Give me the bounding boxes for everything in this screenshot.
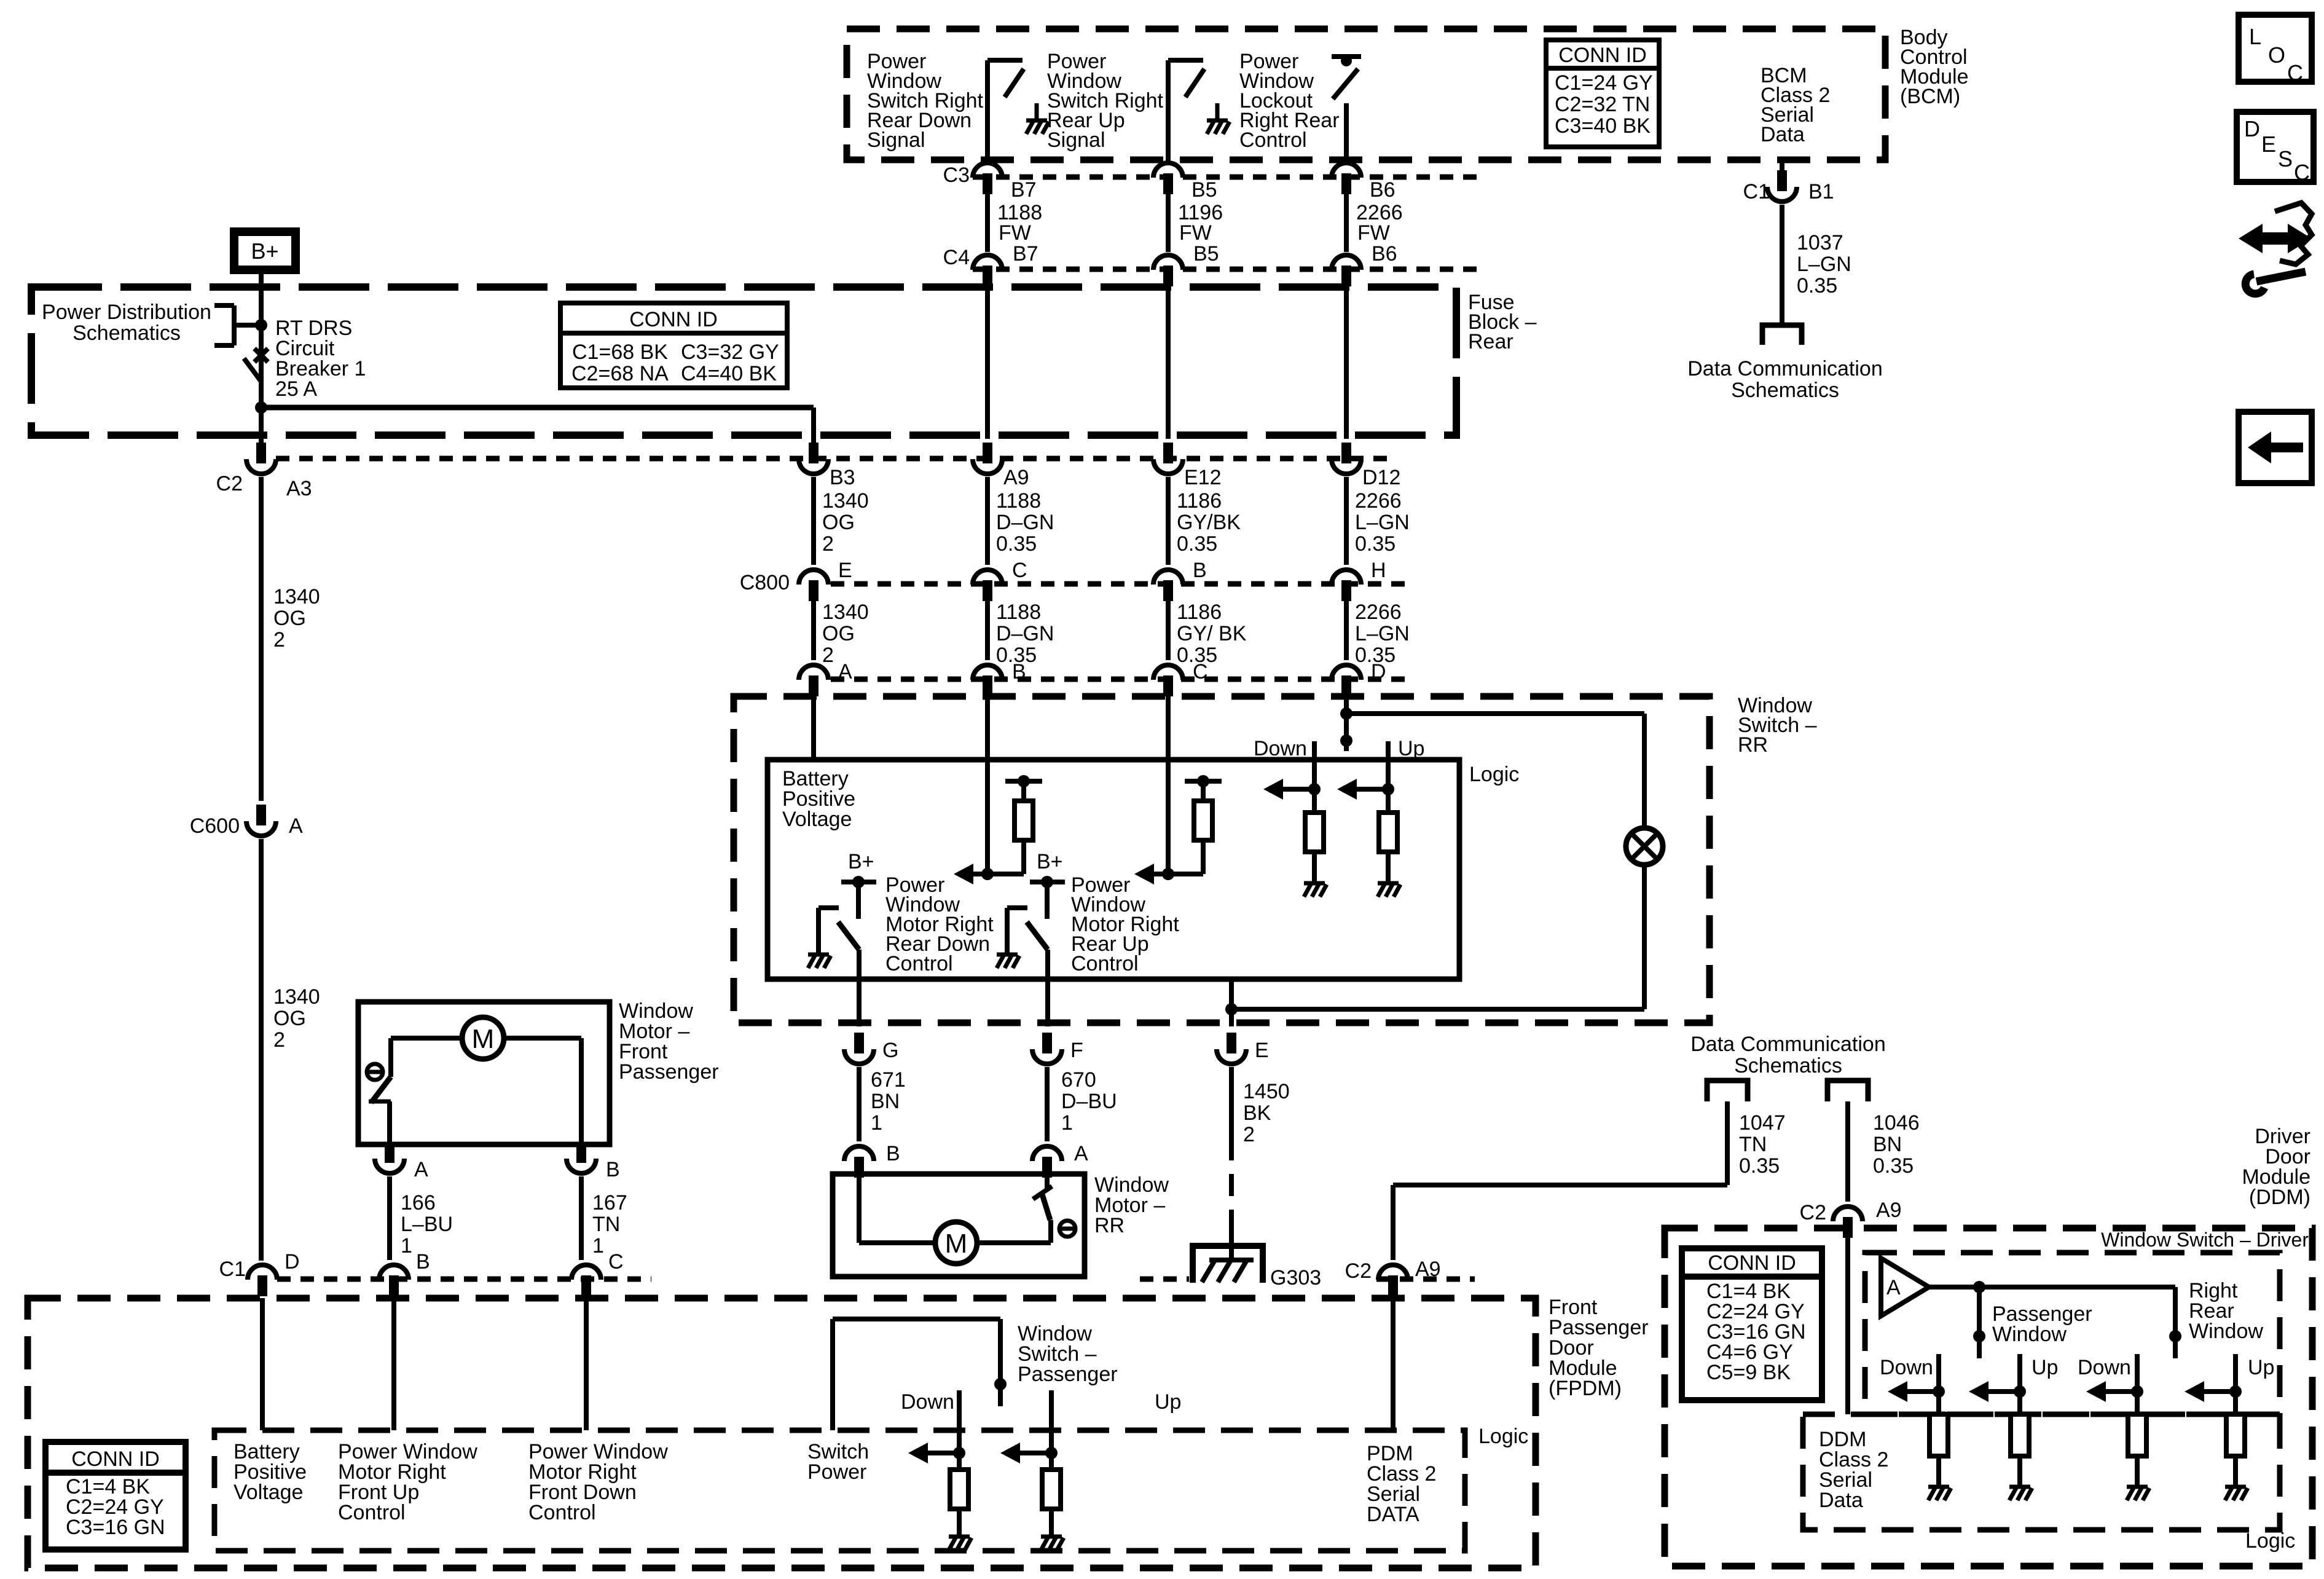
svg-text:C2=68 NA: C2=68 NA xyxy=(571,362,669,385)
svg-text:Window: Window xyxy=(2189,1320,2263,1343)
svg-text:G: G xyxy=(882,1039,898,1062)
svg-text:S: S xyxy=(2278,146,2293,171)
svg-text:Up: Up xyxy=(2248,1356,2274,1379)
svg-text:Schematics: Schematics xyxy=(73,321,181,345)
svg-text:B+: B+ xyxy=(1037,850,1063,873)
svg-text:Data: Data xyxy=(1819,1489,1863,1512)
svg-text:2266: 2266 xyxy=(1355,600,1402,624)
svg-text:D–BU: D–BU xyxy=(1061,1090,1117,1113)
svg-text:Data Communication: Data Communication xyxy=(1687,357,1882,380)
svg-text:A9: A9 xyxy=(1003,466,1029,489)
svg-text:1: 1 xyxy=(401,1234,412,1258)
svg-text:A3: A3 xyxy=(286,477,312,500)
svg-text:B1: B1 xyxy=(1808,180,1834,203)
svg-text:2: 2 xyxy=(1243,1123,1255,1146)
svg-text:E: E xyxy=(2261,132,2276,157)
svg-text:C: C xyxy=(1012,559,1027,582)
svg-text:D–GN: D–GN xyxy=(996,622,1054,645)
svg-text:1340: 1340 xyxy=(273,985,320,1009)
svg-text:A: A xyxy=(1074,1142,1088,1165)
svg-text:Control: Control xyxy=(528,1501,596,1524)
svg-text:C800: C800 xyxy=(740,571,790,594)
svg-text:Up: Up xyxy=(2032,1356,2058,1379)
svg-text:CONN ID: CONN ID xyxy=(71,1447,160,1471)
svg-text:D: D xyxy=(1371,660,1386,683)
svg-text:1450: 1450 xyxy=(1243,1080,1290,1103)
svg-text:FW: FW xyxy=(1357,221,1390,245)
svg-text:D12: D12 xyxy=(1362,466,1400,489)
svg-text:Data Communication: Data Communication xyxy=(1690,1033,1885,1056)
svg-text:L–GN: L–GN xyxy=(1355,511,1410,534)
svg-text:A9: A9 xyxy=(1876,1199,1902,1222)
svg-text:Passenger: Passenger xyxy=(619,1060,719,1084)
svg-text:OG: OG xyxy=(822,622,855,645)
svg-text:CONN ID: CONN ID xyxy=(1558,44,1647,67)
svg-text:Down: Down xyxy=(1880,1356,1933,1379)
svg-text:Down: Down xyxy=(1254,737,1307,760)
svg-text:E12: E12 xyxy=(1184,466,1222,489)
svg-text:C2: C2 xyxy=(1800,1201,1826,1224)
svg-text:Signal: Signal xyxy=(1047,128,1105,152)
svg-text:Power Distribution: Power Distribution xyxy=(42,301,211,324)
svg-text:1340: 1340 xyxy=(822,489,869,513)
svg-text:2: 2 xyxy=(273,628,285,652)
svg-text:(FPDM): (FPDM) xyxy=(1549,1377,1622,1400)
svg-text:L–GN: L–GN xyxy=(1797,253,1851,276)
svg-text:L–GN: L–GN xyxy=(1355,622,1410,645)
svg-text:D: D xyxy=(2244,116,2260,141)
svg-text:BK: BK xyxy=(1243,1101,1271,1125)
svg-text:C600: C600 xyxy=(190,814,240,838)
svg-text:1047: 1047 xyxy=(1739,1111,1786,1135)
svg-text:0.35: 0.35 xyxy=(1873,1154,1914,1178)
svg-text:B5: B5 xyxy=(1191,178,1217,202)
svg-text:Control: Control xyxy=(885,952,953,975)
svg-text:F: F xyxy=(1070,1039,1083,1062)
svg-text:0.35: 0.35 xyxy=(1355,532,1396,556)
svg-text:D–GN: D–GN xyxy=(996,511,1054,534)
svg-text:2: 2 xyxy=(822,532,834,556)
svg-text:TN: TN xyxy=(592,1213,620,1236)
svg-text:Down: Down xyxy=(901,1390,954,1414)
svg-text:B3: B3 xyxy=(830,466,855,489)
svg-text:C4=40 BK: C4=40 BK xyxy=(681,362,777,385)
svg-text:166: 166 xyxy=(401,1191,436,1215)
svg-text:670: 670 xyxy=(1061,1068,1096,1092)
svg-text:M: M xyxy=(472,1024,495,1054)
svg-text:C1=24 GY: C1=24 GY xyxy=(1555,71,1653,95)
svg-text:Control: Control xyxy=(1239,128,1307,152)
svg-text:FW: FW xyxy=(999,221,1031,245)
svg-text:Schematics: Schematics xyxy=(1734,1054,1842,1077)
svg-text:C3=32 GY: C3=32 GY xyxy=(681,341,779,364)
svg-text:Voltage: Voltage xyxy=(782,808,852,831)
svg-text:B7: B7 xyxy=(1011,178,1037,202)
svg-text:RR: RR xyxy=(1738,733,1768,757)
svg-text:BN: BN xyxy=(871,1090,900,1113)
svg-text:0.35: 0.35 xyxy=(1739,1154,1780,1178)
svg-text:GY/BK: GY/BK xyxy=(1177,511,1241,534)
svg-text:Down: Down xyxy=(2078,1356,2131,1379)
svg-text:L–BU: L–BU xyxy=(401,1213,453,1236)
svg-text:B6: B6 xyxy=(1372,242,1397,266)
svg-text:1: 1 xyxy=(871,1111,882,1135)
svg-text:L: L xyxy=(2249,24,2261,49)
svg-text:B+: B+ xyxy=(848,850,874,873)
svg-text:Power: Power xyxy=(807,1460,866,1484)
svg-text:1: 1 xyxy=(592,1234,604,1258)
svg-text:B5: B5 xyxy=(1193,242,1219,266)
svg-text:Logic: Logic xyxy=(1478,1425,1528,1448)
svg-text:A9: A9 xyxy=(1415,1258,1441,1281)
svg-text:B: B xyxy=(416,1250,430,1274)
svg-text:C: C xyxy=(2287,60,2303,85)
svg-text:C1: C1 xyxy=(1743,180,1770,203)
svg-text:O: O xyxy=(2268,42,2285,68)
svg-text:1188: 1188 xyxy=(996,489,1041,513)
svg-text:0.35: 0.35 xyxy=(1797,274,1837,297)
svg-text:167: 167 xyxy=(592,1191,627,1215)
svg-text:TN: TN xyxy=(1739,1133,1767,1156)
svg-text:C3=40 BK: C3=40 BK xyxy=(1555,114,1651,138)
svg-text:Window Switch – Driver: Window Switch – Driver xyxy=(2101,1229,2309,1251)
svg-text:OG: OG xyxy=(273,1007,306,1030)
svg-text:Voltage: Voltage xyxy=(234,1481,303,1504)
svg-text:OG: OG xyxy=(273,607,306,630)
svg-text:D: D xyxy=(285,1250,300,1274)
svg-text:Rear: Rear xyxy=(1468,330,1513,353)
svg-text:CONN ID: CONN ID xyxy=(629,308,718,331)
svg-text:Logic: Logic xyxy=(2245,1529,2295,1553)
svg-text:1188: 1188 xyxy=(996,600,1041,624)
svg-text:E: E xyxy=(1255,1039,1269,1062)
svg-text:Window: Window xyxy=(1992,1323,2067,1346)
svg-text:H: H xyxy=(1371,559,1386,582)
svg-text:0.35: 0.35 xyxy=(1177,532,1217,556)
svg-text:1340: 1340 xyxy=(822,600,869,624)
svg-text:Passenger: Passenger xyxy=(1018,1363,1118,1386)
svg-text:C4: C4 xyxy=(943,246,970,269)
svg-text:0.35: 0.35 xyxy=(996,532,1037,556)
svg-text:B: B xyxy=(1193,559,1207,582)
svg-text:Up: Up xyxy=(1155,1390,1181,1414)
svg-text:1046: 1046 xyxy=(1873,1111,1920,1135)
svg-text:C5=9 BK: C5=9 BK xyxy=(1706,1361,1791,1384)
svg-text:FW: FW xyxy=(1179,221,1212,245)
svg-text:1340: 1340 xyxy=(273,585,320,608)
svg-text:C: C xyxy=(2294,160,2310,185)
svg-text:Control: Control xyxy=(338,1501,406,1524)
svg-text:A: A xyxy=(1886,1276,1901,1299)
svg-text:B7: B7 xyxy=(1013,242,1038,266)
svg-text:C1=68 BK: C1=68 BK xyxy=(572,341,668,364)
svg-text:C1: C1 xyxy=(219,1258,246,1281)
svg-text:2266: 2266 xyxy=(1355,489,1402,513)
svg-text:Signal: Signal xyxy=(867,128,925,152)
svg-text:DATA: DATA xyxy=(1367,1503,1419,1526)
svg-text:(BCM): (BCM) xyxy=(1900,85,1960,108)
svg-text:GY/ BK: GY/ BK xyxy=(1177,622,1247,645)
svg-text:C: C xyxy=(608,1250,624,1274)
svg-text:1186: 1186 xyxy=(1177,600,1222,624)
svg-text:C2=32 TN: C2=32 TN xyxy=(1555,93,1650,116)
svg-text:B+: B+ xyxy=(251,238,278,264)
svg-text:1186: 1186 xyxy=(1177,489,1222,513)
svg-text:A: A xyxy=(289,814,303,838)
svg-text:25 A: 25 A xyxy=(275,377,317,401)
svg-text:CONN ID: CONN ID xyxy=(1708,1251,1796,1275)
svg-text:B: B xyxy=(886,1142,900,1165)
svg-text:1037: 1037 xyxy=(1797,231,1843,254)
svg-text:Control: Control xyxy=(1071,952,1139,975)
svg-text:B: B xyxy=(1012,660,1026,683)
svg-text:C2: C2 xyxy=(1345,1259,1372,1283)
svg-text:RR: RR xyxy=(1094,1214,1125,1237)
svg-text:Up: Up xyxy=(1398,737,1424,760)
svg-text:A: A xyxy=(838,660,852,683)
svg-text:G303: G303 xyxy=(1270,1266,1321,1290)
svg-text:OG: OG xyxy=(822,511,855,534)
svg-text:BN: BN xyxy=(1873,1133,1902,1156)
svg-text:2: 2 xyxy=(822,644,834,667)
svg-text:671: 671 xyxy=(871,1068,906,1092)
svg-text:B: B xyxy=(606,1158,620,1181)
svg-text:C2: C2 xyxy=(216,472,243,495)
svg-text:C3: C3 xyxy=(943,163,970,187)
svg-text:E: E xyxy=(838,559,852,582)
svg-text:A: A xyxy=(414,1158,428,1181)
svg-text:1: 1 xyxy=(1061,1111,1073,1135)
svg-text:2: 2 xyxy=(273,1028,285,1052)
svg-text:Schematics: Schematics xyxy=(1731,379,1839,402)
svg-text:B6: B6 xyxy=(1370,178,1396,202)
svg-text:Logic: Logic xyxy=(1469,763,1519,786)
svg-text:M: M xyxy=(945,1229,968,1259)
svg-text:C: C xyxy=(1193,660,1208,683)
svg-text:C3=16 GN: C3=16 GN xyxy=(66,1516,165,1539)
svg-text:(DDM): (DDM) xyxy=(2249,1186,2310,1209)
svg-text:Data: Data xyxy=(1761,123,1805,146)
